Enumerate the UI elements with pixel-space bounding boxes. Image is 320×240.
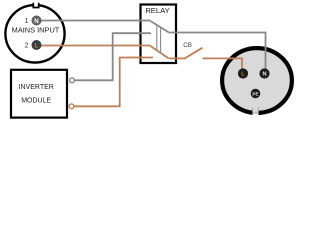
relay K1	[141, 5, 177, 64]
svg-text:N: N	[34, 18, 39, 25]
inverter module terminals	[69, 78, 74, 109]
connector J2 keyway slot	[253, 110, 259, 118]
connector J2 output socket body	[222, 48, 292, 117]
CB blade	[184, 48, 203, 59]
inverter module box	[11, 70, 67, 118]
svg-text:1: 1	[25, 18, 29, 25]
pin N (mains input)	[32, 16, 42, 26]
wire inverter L to relay throw	[74, 58, 153, 107]
wire mains N to relay throw	[42, 20, 151, 22]
connector J1 pins	[32, 16, 42, 51]
terminal inverter L out	[69, 104, 74, 109]
relay contact pole 1 blade	[151, 21, 169, 32]
svg-text:L: L	[241, 72, 245, 78]
relay actuator bar	[156, 25, 158, 51]
svg-text:MAINS INPUT: MAINS INPUT	[12, 26, 60, 35]
svg-text:MODULE: MODULE	[21, 98, 51, 105]
wire inverter N to relay throw	[75, 33, 152, 80]
circuit breaker CB	[183, 42, 202, 59]
wire relay common N to output pin N	[169, 33, 266, 70]
connector J1 keyway notch	[33, 3, 38, 8]
connector J2 pins	[238, 68, 270, 98]
svg-text:PE: PE	[252, 92, 258, 97]
svg-text:INVERTER: INVERTER	[19, 84, 54, 91]
svg-text:2: 2	[25, 43, 29, 50]
relay box	[141, 5, 177, 64]
wire relay common L to CB	[169, 57, 185, 59]
connector J1 body circle	[5, 5, 64, 62]
connector J2 keyway tab	[253, 107, 259, 113]
wire mains L to relay throw	[42, 45, 151, 47]
svg-text:L: L	[35, 43, 39, 50]
wire CB to output pin L	[203, 58, 243, 69]
terminal inverter N out	[70, 78, 75, 83]
svg-text:RELAY: RELAY	[145, 6, 169, 15]
relay contact pole 2 blade	[151, 46, 169, 58]
pin PE (output)	[251, 89, 261, 99]
inverter module	[11, 70, 67, 118]
pin L (mains input)	[32, 40, 42, 50]
pin N (output)	[259, 68, 269, 78]
connector J2 body circle	[222, 48, 292, 113]
pin L (output)	[238, 68, 248, 78]
connector J1 MAINS INPUT body	[5, 3, 64, 63]
svg-text:N: N	[262, 72, 266, 78]
relay actuator bar 2	[160, 27, 162, 53]
svg-text:CB: CB	[183, 42, 192, 49]
